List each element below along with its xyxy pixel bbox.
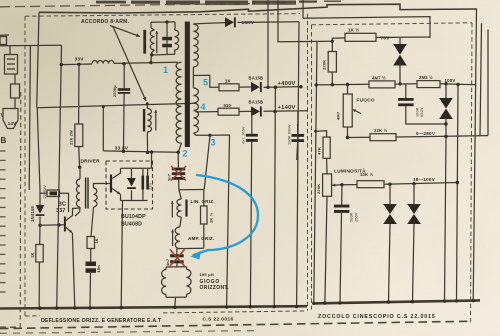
wire 1N4148 column top (37, 108, 40, 190)
coil L-LIN (177, 199, 181, 217)
capacitor C-33V plates (118, 88, 130, 94)
resistor R-1K half (201, 206, 208, 224)
wire D-BU leads (131, 168, 133, 200)
wire yoke to bus (174, 297, 177, 307)
wire 1K top right lead (376, 36, 400, 38)
connector block J1 inner marks (7, 59, 15, 69)
node FUOCO top dot (346, 83, 349, 86)
wire BU box bottom rail (121, 200, 148, 202)
wire T1 primary bottom (178, 143, 181, 152)
wire y107 to 33.5V drop (102, 107, 104, 151)
wire tank top rail (151, 21, 175, 23)
yoke bottom rail (166, 296, 187, 298)
wire C500K bottom lead (340, 213, 342, 303)
wire 0-280V row right (396, 136, 488, 137)
left edge small wire (0, 34, 9, 36)
coil L2 (175, 22, 179, 54)
wire x481 vertical (480, 23, 482, 136)
wire rail x275 (274, 87, 275, 307)
wire T1 sec top to diode (193, 23, 225, 24)
ground junction dot BU-emitter (120, 306, 123, 309)
ground junction dot emitter (73, 306, 76, 309)
driver transformer primary (76, 167, 80, 207)
wire x268 vertical (267, 0, 269, 87)
annotation 3 blue (211, 138, 216, 148)
wire tank bottom drop (150, 55, 153, 63)
label ORIZZONT (200, 285, 230, 291)
potentiometer P-LUM (323, 174, 332, 196)
node 3 dot (208, 134, 211, 137)
node 33V junction dot (77, 63, 80, 66)
coil L3 tuning arrow (154, 110, 157, 131)
coil L1 (150, 22, 154, 55)
driver transformer secondary (94, 188, 98, 207)
label BU408D (121, 222, 142, 228)
label 195 uH (200, 272, 214, 277)
transistor Q-BC337 collector (66, 208, 80, 221)
capacitor C-100K 630V right (398, 98, 414, 106)
label ACCORDO 8 ARM (81, 19, 129, 25)
choke L-33V (92, 61, 114, 64)
wire R to C15n (90, 249, 92, 262)
label C-22n value (43, 185, 47, 199)
label C-3n3 value (168, 174, 172, 181)
label C-100K value (288, 124, 292, 145)
resistor R1K-bc (36, 245, 43, 263)
wire C-22n left lead (40, 192, 47, 194)
annotation 1 blue (163, 65, 168, 75)
label 0-280V (416, 131, 436, 136)
double diode DD2 (439, 98, 453, 119)
capacitor C-15n (86, 262, 97, 273)
resistor R-220K (328, 52, 336, 73)
potentiometer P-LUM wiper (332, 184, 342, 187)
label R-47K value (317, 147, 322, 155)
label +140V (278, 105, 296, 111)
red cross marks C-4n7 (170, 250, 185, 267)
transistor Q-BC337 base bar (64, 217, 66, 232)
coil L-AMP (175, 227, 180, 249)
label R-driver-sec value (95, 238, 99, 243)
right bus junction dot pot-lum (323, 301, 326, 304)
potentiometer FUOCO (343, 94, 352, 127)
red cross marks C-3n3 (171, 166, 186, 181)
double diode DD3 (383, 204, 397, 224)
transformer T1 primary (176, 62, 181, 143)
node tank bottom dot (150, 53, 153, 56)
wire 33V left (62, 63, 93, 66)
right bus junction dot DD4 (411, 300, 414, 303)
wire C-4x7 leads (250, 111, 251, 306)
wire vertical stub C (302, 0, 304, 18)
capacitor C-3n3 plates (172, 168, 185, 180)
ground junction dot yoke (173, 306, 176, 309)
node DD4 top dot (412, 182, 415, 185)
node 2 dot (177, 151, 180, 154)
label FUOCO (357, 98, 375, 104)
node x61 33V dot (60, 63, 63, 66)
transformer T1 secondary upper (193, 24, 198, 67)
wire 33V down branch (78, 64, 80, 124)
double diode DD1 (393, 44, 407, 66)
wire top-left vertical drop (37, 12, 39, 107)
ground junction dot C15n (88, 306, 91, 309)
wire node2 to C3n3 (177, 152, 179, 168)
node cap junction dot (122, 62, 125, 65)
title DEFLESSIONE (41, 318, 162, 324)
wire DD4 leads (413, 184, 415, 302)
wire FUOCO top lead (347, 85, 349, 95)
wire LIN branch top (179, 190, 181, 199)
wire J1 to R-left (14, 74, 16, 84)
node DD2 top dot (444, 82, 447, 85)
wire C-BU bottom lead (142, 190, 144, 201)
node DD1 bias dot (398, 82, 401, 85)
node rail275 top dot (274, 86, 277, 89)
node x268 +400 dot (266, 86, 269, 89)
potentiometer FUOCO wiper (353, 109, 361, 113)
wire tap3 curve (193, 133, 210, 135)
wire diode leads (39, 190, 41, 225)
left section dashed box top edge (25, 14, 300, 17)
label 100V (445, 78, 456, 83)
wire DD2 column to bus (445, 137, 447, 302)
wire 1K top left lead (332, 38, 345, 52)
wire 33.5V row (103, 151, 178, 152)
label 70V (381, 35, 391, 41)
yoke top rail (166, 266, 187, 268)
label 1N4148 (30, 206, 35, 222)
node +400V EHT-crossing dot (299, 85, 302, 88)
wire C-tank leads (166, 22, 168, 54)
label R-22K value (374, 128, 388, 133)
wire BU drop (151, 152, 153, 168)
node DD2 mid dot (444, 122, 447, 125)
label GIOGO (200, 279, 220, 285)
label R-1K half value (209, 212, 214, 223)
node +140V dot275 (273, 110, 276, 113)
label R1K-bc value (30, 252, 35, 258)
node R220K bias dot (331, 83, 334, 86)
label R-1K half top value (348, 28, 359, 33)
wire x30 vertical (29, 46, 30, 190)
node y107 junction dot (102, 105, 105, 108)
wire lum row right (384, 183, 457, 185)
wire bias row mid (395, 83, 417, 85)
ground bus left (0, 306, 307, 308)
resistor R-4M7 half (369, 81, 395, 88)
capacitor C-BU plates (142, 176, 149, 190)
wire C-BU top lead (143, 168, 148, 175)
wire tap4 (196, 111, 219, 113)
node P-LUM wiper dot (340, 183, 343, 186)
label R-220K value (322, 60, 327, 70)
capacitor C-4n7 plates (170, 254, 184, 263)
label FUOCO 4M7 (336, 111, 341, 120)
torn paper top edge second dash row (0, 3, 300, 7)
label C-BU value (149, 183, 153, 190)
label R-4M7 value (372, 75, 386, 80)
capacitor C-tank plates (162, 37, 172, 48)
transistor Q-BU emitter (112, 189, 120, 195)
wire node3 down to box (204, 135, 210, 189)
right bus junction dot DD2col (443, 299, 446, 302)
diode D-BA15B-4 (251, 106, 262, 116)
wire x476 vertical (473, 9, 476, 301)
wire +140V (264, 110, 309, 113)
wire 47K corner (316, 131, 327, 137)
label BC 337 (56, 202, 66, 215)
wire 47K to pot (326, 158, 328, 174)
left section dashed box bottom edge (25, 311, 307, 316)
label AMP ORIZ (188, 236, 214, 241)
connector block J1 (5, 55, 18, 75)
wire box right rail (203, 190, 205, 249)
diode D-BA15B-5 (251, 82, 262, 92)
coil L-LIN core bar (185, 200, 187, 217)
blue arrow curve (191, 175, 259, 260)
wire box top rail (179, 189, 204, 191)
wire DD2 bottom lead (445, 119, 447, 137)
wire left horizontal y45 (0, 44, 62, 47)
wire T1 sec link (192, 67, 194, 88)
annotation 5 blue (203, 78, 208, 88)
diode D-EHT 16KV (225, 17, 236, 27)
node base row dot (38, 224, 41, 227)
wire DD3 leads (389, 184, 391, 302)
wire BC337 emitter to bus (72, 233, 74, 308)
resistor R220 2W (75, 124, 83, 147)
left section dashed box right edge (307, 14, 309, 311)
wire R220K bottom (331, 72, 333, 85)
wire top rail left segment (39, 4, 477, 13)
yoke left coil (161, 267, 166, 297)
resistor R-1K half top (345, 33, 376, 41)
capacitor C-4x7 165V (246, 134, 258, 142)
label C-4x7 value (242, 126, 246, 144)
node cap1 anode dot (251, 110, 254, 113)
node FUOCO bottom dot (346, 136, 349, 139)
label C-4n7 value (166, 259, 170, 266)
wire C100K bottom corner (297, 124, 299, 142)
wire 0-280V row left (348, 136, 371, 138)
label 33V (75, 57, 85, 63)
label 33.5V (115, 146, 129, 152)
capacitor C-22n body (47, 190, 60, 197)
wire driver sec bottom (91, 207, 94, 237)
wire DD2 top lead (445, 84, 447, 98)
label C-100K right value (416, 107, 425, 117)
left edge small box (0, 37, 7, 45)
node bias rail dot (315, 83, 318, 86)
wire 70V corner (400, 36, 430, 38)
arrow shape 14V plug (3, 109, 18, 129)
transistor Q-BU base bar (110, 175, 112, 193)
double diode DD4 (407, 204, 421, 224)
label R-510 value (224, 103, 232, 108)
wire 14V plug lead (14, 98, 16, 109)
wire LIN to AMP (180, 217, 182, 227)
node DD3 top dot (388, 183, 391, 186)
yoke right coil (187, 267, 192, 297)
label LIN ORIZ (191, 199, 215, 204)
wire x458 vertical (457, 84, 459, 301)
wire driver pri bottom (75, 207, 80, 216)
right bus junction dot rail316 (312, 302, 315, 305)
wire box bottom rail (177, 247, 204, 249)
page bottom faint torn dash row (0, 331, 255, 334)
resistor R-10K half (357, 181, 384, 188)
wire x61 vertical (57, 45, 62, 308)
ground junction dot rail275 (273, 305, 276, 308)
resistor R-left vertical (11, 84, 20, 98)
ground junction dot node3 (225, 305, 228, 308)
torn paper top edge band (96, 1, 341, 6)
wire second top-right rail (303, 17, 430, 38)
wire P-LUM bottom (325, 196, 327, 303)
annotation 4 blue (201, 102, 206, 112)
wire DD1 top lead (399, 37, 401, 44)
label R-2M2 value (419, 75, 433, 80)
wire lum row (342, 184, 357, 186)
label R-1K value (225, 79, 231, 84)
label BU104DP (121, 214, 146, 220)
wire bias row (316, 83, 369, 86)
resistor R-47K (323, 137, 330, 158)
left section dashed box left edge (24, 16, 26, 316)
driver transformer core (85, 178, 89, 209)
resistor R-driver-sec (87, 237, 95, 249)
node BU drop dot (150, 150, 153, 153)
label C-500K value (350, 212, 359, 222)
label R220 value (69, 130, 74, 145)
transistor Q-BC337 emitter (66, 228, 72, 233)
pointer arrow to L3 (113, 27, 146, 102)
capacitor C-100K leads (297, 111, 298, 160)
label C-15n value (96, 265, 101, 273)
ground junction dot C4x7 (249, 305, 252, 308)
page bottom dash-dot border (0, 321, 468, 328)
dashed box BU transistor (106, 161, 153, 209)
node x458 top dot (456, 83, 459, 86)
right bus junction dot x476 (472, 299, 475, 302)
wire J1 top lead (9, 46, 11, 55)
wire EHT vertical rail (297, 22, 299, 307)
node 47K rail dot (314, 130, 317, 133)
wire x278 vertical corner (278, 0, 332, 42)
coil L1 tuning arrow (155, 31, 158, 53)
node driver top dot (78, 166, 81, 169)
node L3 top dot (146, 102, 149, 105)
wire DD1 bottom lead (399, 66, 401, 84)
capacitor C-33V leads (123, 64, 126, 151)
transistor Q-BU collector (112, 168, 120, 178)
ground junction dot x61 (55, 306, 58, 309)
wire base row (40, 224, 65, 227)
diode D-1N4148 (36, 205, 45, 216)
node C33V row dot (122, 150, 125, 153)
label +400V (278, 81, 296, 87)
wire node3 to bus drop (210, 135, 230, 307)
title CS 22.0016 (203, 317, 234, 323)
wire x488 vertical (487, 30, 489, 136)
node 220K top dot (331, 40, 334, 43)
title ZOCCOLO (318, 314, 436, 320)
diode D-BU (127, 178, 136, 189)
annotation 2 blue (183, 149, 188, 159)
wire long horizontal y107 (37, 103, 197, 108)
wire R220 to driver (78, 147, 81, 168)
label LUMINOSITA (334, 167, 366, 174)
capacitor C-100K 630V (292, 134, 305, 142)
resistor R-510 tap4 (218, 108, 239, 115)
wire base branch down (39, 225, 41, 244)
wire bias row right (440, 84, 476, 85)
wire tap5 jog (193, 75, 219, 87)
label BA15B row5 (249, 75, 264, 80)
wire right rail x316 (314, 42, 317, 304)
right section dashed box top edge (312, 23, 473, 25)
coil L-LIN arrow (171, 201, 174, 218)
wire cap100K link (405, 84, 407, 98)
coil L1 core bar (143, 30, 146, 54)
label 14V (8, 121, 18, 126)
node tank top dot (165, 20, 168, 23)
wire FUOCO bottom lead (347, 127, 349, 138)
transformer T1 core (185, 22, 190, 148)
wire 33V right (114, 62, 178, 63)
label B (1, 136, 7, 145)
right section dashed box left edge (311, 25, 313, 310)
wire tank bottom rail (152, 53, 175, 56)
capacitor C-500K (334, 205, 350, 213)
node tank 33V dot (149, 61, 152, 64)
label BA15B row4 (249, 100, 264, 105)
wire C500K top lead (341, 185, 343, 205)
node V label (1, 113, 5, 119)
pointer arrow to L1 (110, 26, 140, 38)
wire BU emitter down (121, 194, 123, 307)
coil L3 core bar (143, 109, 145, 132)
right bus junction dot x458 (455, 299, 458, 302)
label 16KV (242, 20, 255, 26)
wire +400V (264, 86, 302, 89)
wire C-22n right lead (60, 193, 69, 212)
label DRIVER (81, 158, 101, 164)
label P-LUM value (316, 184, 321, 194)
label C-33V value (113, 85, 117, 97)
wire C3n3 to box (178, 180, 180, 190)
right bus junction dot DD3 (387, 300, 390, 303)
right section dashed box right edge (471, 23, 473, 324)
wire BU box top rail (121, 167, 152, 169)
coil L3 (147, 104, 151, 153)
ground bus right (313, 300, 480, 303)
wire cap100K bottom corner (406, 106, 446, 124)
node base row crossing dot (57, 223, 60, 226)
node DD2 0-280 dot (444, 135, 447, 138)
page left dashed border (19, 92, 22, 328)
wire box bottom to C4n7 (176, 249, 178, 255)
ground junction dot EHT-rail (295, 305, 298, 308)
wire C4n7 to yoke (176, 263, 178, 266)
label R-10K value (360, 172, 374, 177)
wire C-15n to bus (89, 273, 92, 308)
resistor R-22K half (370, 134, 396, 141)
ground junction dot R1K-bc (38, 307, 41, 310)
node x458 lum dot (456, 181, 459, 184)
wire driver sec top to BU base (94, 184, 110, 189)
